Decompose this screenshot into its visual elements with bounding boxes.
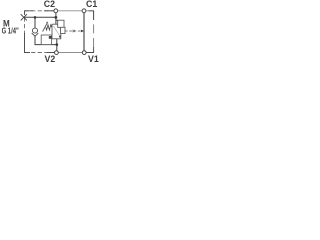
wire: connector from C2 line to step box — [56, 19, 58, 21]
relief valve main box U1 — [52, 24, 61, 39]
plugged gauge port M (X symbol) — [21, 14, 27, 20]
wire: valve outlet to V2 — [56, 39, 58, 51]
valve body outline bottom edge (dashed left, lapped solid right) — [25, 52, 51, 54]
valve body outline left edge (dashed) — [24, 11, 26, 53]
check valve (ball and seat) — [33, 28, 38, 33]
pilot line (dashed) with chevron — [65, 30, 81, 32]
adjustment arrow across spring — [43, 23, 48, 32]
blob in lower-left box corner — [49, 36, 52, 39]
spring of relief valve — [46, 25, 52, 30]
wire: gauge line from port M to C2 branch — [24, 16, 56, 18]
svg-text:G 1/4": G 1/4" — [2, 27, 19, 36]
wire: C2 down-line into valve — [55, 13, 57, 25]
wire: check valve outlet down and right to V2 line — [35, 36, 57, 44]
valve body outline top edge (dashed left, lapped solid right) — [25, 10, 56, 12]
wire: C1 to V1 through line — [83, 13, 85, 51]
svg-text:C1: C1 — [86, 0, 97, 9]
port V1 — [82, 51, 86, 55]
pilot step box (top right of valve) — [58, 20, 64, 27]
body outline solid corner segments — [25, 11, 94, 53]
valve body outline right edge (long dashes) — [93, 11, 95, 53]
port V2 — [55, 51, 59, 55]
pilot arrowhead into C1-V1 line — [81, 30, 84, 33]
svg-text:V2: V2 — [45, 54, 56, 63]
relief arrow inside box — [54, 26, 60, 36]
port C2 — [54, 9, 58, 13]
svg-text:V1: V1 — [88, 54, 99, 63]
box lower-left (check/valve body section) — [41, 35, 51, 45]
node: junction check branch — [34, 16, 37, 19]
pilot piston box — [61, 27, 65, 33]
node: junction outlet/check line — [56, 43, 59, 46]
wire: check valve branch (down from junction) — [34, 17, 36, 28]
node: junction gauge/C2 line — [55, 16, 58, 19]
port C1 — [82, 9, 86, 13]
svg-text:C2: C2 — [44, 0, 55, 9]
